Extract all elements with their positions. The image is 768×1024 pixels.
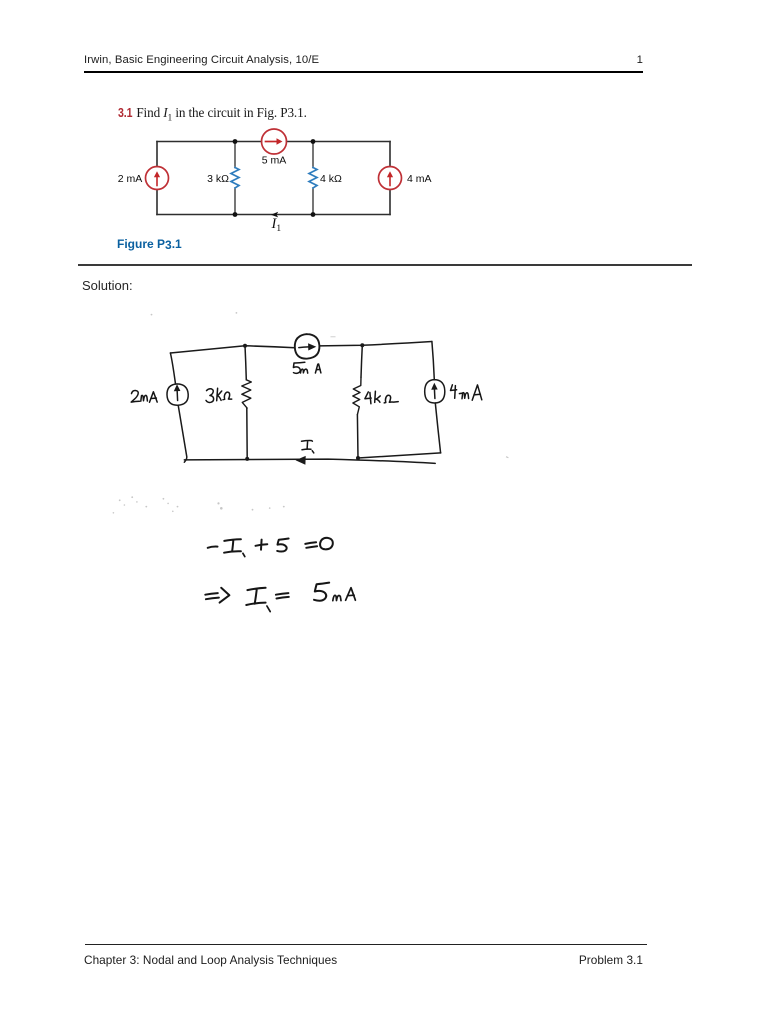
node bottom 3k (233, 212, 238, 217)
footer left (84, 953, 337, 967)
resistor 3k zigzag (hand) (242, 380, 252, 408)
node dot 4k top (360, 343, 364, 347)
header rule (84, 71, 643, 73)
svg-text:2 mA: 2 mA (118, 173, 143, 185)
wire branch 4k (hand) (361, 345, 362, 377)
wire left branch (156, 142, 158, 215)
equation 2: I1 (246, 588, 265, 605)
current source 2mA arrow (hand) (176, 390, 179, 401)
equation 1: equals sign (305, 542, 317, 548)
I1 arrowhead on bottom wire (hand) (296, 456, 306, 465)
pencil speckles (119, 499, 121, 501)
footer right (540, 953, 643, 967)
resistor 4 kOhm zigzag (309, 168, 317, 189)
current source 5 mA circle (262, 129, 287, 154)
equation 2: arrow double =&gt; (205, 593, 219, 599)
node dot 3k bottom (245, 457, 249, 461)
hand drawn work (90, 300, 550, 630)
svg-text:3 kΩ: 3 kΩ (207, 173, 229, 185)
svg-text:4 kΩ: 4 kΩ (320, 173, 342, 185)
equation 1: I1 (224, 539, 241, 553)
equation 1: digit 0 (320, 538, 333, 550)
label 5mA handwritten (293, 362, 304, 373)
resistor 3 kOhm zigzag (231, 168, 239, 189)
current source 5mA arrow (hand) (299, 346, 309, 349)
current source 4 mA circle (379, 167, 402, 190)
equation 1: digit 5 (277, 539, 288, 552)
svg-text:5 mA: 5 mA (262, 155, 287, 167)
wire branch 3k (hand) (245, 346, 246, 380)
node bottom 4k (311, 212, 316, 217)
label 3kOhm handwritten (206, 389, 214, 403)
wire top-left segment (157, 141, 262, 143)
footer rule (85, 944, 647, 946)
node top 4k (311, 139, 316, 144)
printed circuit figure (100, 120, 450, 238)
problem statement (118, 105, 307, 124)
wire bottom long stroke (hand) (184, 459, 435, 463)
node dot 4k bottom (356, 456, 360, 460)
wire middle branch 3k (234, 142, 236, 215)
faint dash above top wire (331, 336, 336, 337)
equation 2: equals sign (276, 593, 289, 598)
node top 3k (233, 139, 238, 144)
wire top right (hand) (320, 342, 432, 346)
current source 4mA circle (hand) (425, 380, 445, 403)
page number (630, 54, 643, 66)
equation 2: letter A (346, 588, 356, 601)
equation 2: letter m (333, 595, 341, 600)
current source 2mA circle (hand) (167, 384, 188, 405)
I1 arrowhead on bottom wire (271, 212, 278, 218)
wire bottom (157, 214, 390, 216)
resistor 4k zigzag (hand) (353, 377, 361, 414)
wire right branch (389, 142, 391, 215)
equation 2: digit 5 (314, 583, 329, 601)
current source 2 mA circle (146, 167, 169, 190)
Solution label (82, 278, 133, 293)
label I1 handwritten (circuit) (302, 441, 313, 450)
wire left branch (hand) (170, 353, 175, 384)
label 4kOhm handwritten (365, 392, 371, 404)
figure caption (117, 237, 182, 251)
wire top left (hand) (170, 346, 295, 353)
wire top-right segment (287, 141, 391, 143)
label 4mA handwritten (451, 385, 457, 399)
current source 4mA arrow (hand) (433, 388, 436, 399)
current source 5 mA arrow (266, 141, 279, 143)
current source 5mA circle (hand) (295, 334, 320, 359)
header text (84, 54, 319, 66)
svg-text:I1: I1 (271, 216, 282, 234)
current source 4 mA arrow (389, 177, 391, 186)
stray tick mark (506, 456, 509, 458)
svg-text:4 mA: 4 mA (407, 173, 432, 185)
current source 2 mA arrow (156, 177, 158, 186)
wire right branch (hand) (432, 342, 434, 380)
node dot 3k top (243, 344, 247, 348)
equation 1: minus sign (208, 547, 218, 548)
label 2mA handwritten (131, 390, 139, 402)
wire middle branch 4k (312, 142, 314, 215)
wire bottom right stroke (hand) (358, 453, 441, 458)
section rule (78, 264, 692, 266)
equation 1: plus sign (256, 540, 268, 550)
